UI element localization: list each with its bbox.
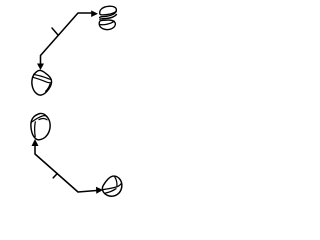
arrowhead into blob C bbox=[32, 139, 39, 146]
blob C: bottom-left knob bbox=[31, 113, 50, 139]
blob B: lower-left slab of top group bbox=[32, 70, 52, 95]
tick on top link bbox=[52, 28, 58, 35]
arrowhead into top-right blob A bbox=[91, 10, 98, 17]
blob A: top-right scribble coil bbox=[99, 6, 116, 29]
arrowhead into blob D bbox=[96, 187, 103, 194]
arrowhead into blob B bbox=[37, 64, 44, 71]
wire: top link polyline bbox=[41, 13, 93, 64]
blob D: bottom-right egg bbox=[102, 176, 121, 196]
wire: bottom link polyline bbox=[35, 146, 97, 192]
tick on bottom link bbox=[53, 174, 57, 178]
